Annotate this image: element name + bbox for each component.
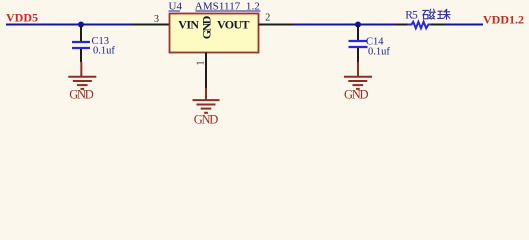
resistor R5 (ferrite bead) [396, 24, 408, 26]
svg-text:VDD5: VDD5 [6, 10, 38, 24]
svg-text:GND: GND [194, 113, 219, 127]
char 磁 : 兹 part [429, 9, 432, 11]
pin 3 lead (VIN) of U4 [132, 24, 170, 26]
svg-text:3: 3 [154, 14, 159, 25]
wire pin2 to R5 [294, 24, 396, 26]
capacitor C14 [357, 25, 359, 40]
value 磁珠 (ferrite bead, drawn glyphs) [423, 9, 436, 19]
svg-text:GND: GND [69, 87, 94, 101]
ground (C14) [344, 62, 372, 89]
wire VDD5 to pin3 [6, 24, 132, 26]
svg-text:0.1uf: 0.1uf [93, 46, 115, 57]
svg-text:2: 2 [265, 12, 270, 23]
pin 2 lead [259, 24, 294, 26]
node junction at C13 [78, 22, 84, 28]
pin 1 lead [205, 53, 207, 89]
svg-text:VDD1.2: VDD1.2 [483, 12, 524, 26]
svg-text:GND: GND [344, 88, 369, 102]
ground (U4) [193, 88, 220, 113]
wire R5 to VDD1.2 [445, 24, 483, 26]
svg-text:GND: GND [199, 15, 213, 39]
svg-text:0.1uf: 0.1uf [368, 47, 390, 58]
ground (C13) [68, 62, 96, 89]
node junction at C14 [355, 22, 361, 28]
svg-text:VOUT: VOUT [217, 18, 250, 32]
char 磁 : 石 radical [423, 9, 429, 11]
svg-text:1: 1 [196, 61, 207, 66]
char 珠 : 王 radical [438, 10, 442, 12]
regulator U4 body [170, 14, 259, 53]
svg-text:VIN: VIN [178, 18, 199, 32]
svg-text:R5: R5 [405, 10, 418, 22]
char 珠 : 朱 part [445, 9, 447, 11]
capacitor C13 [80, 25, 82, 41]
